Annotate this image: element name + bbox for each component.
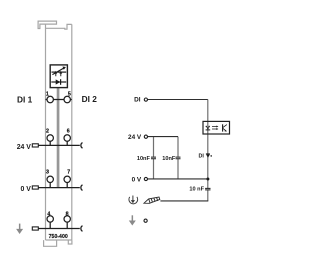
svg-text:5: 5 xyxy=(68,91,71,97)
svg-text:4: 4 xyxy=(47,212,50,218)
svg-text:8: 8 xyxy=(66,212,69,218)
svg-text:0 V: 0 V xyxy=(21,186,32,193)
svg-text:DI: DI xyxy=(134,97,141,104)
svg-text:6: 6 xyxy=(67,128,70,134)
svg-text:DI 2: DI 2 xyxy=(82,94,98,104)
svg-text:24 V: 24 V xyxy=(17,144,32,151)
svg-text:7: 7 xyxy=(67,170,70,176)
svg-text:2: 2 xyxy=(46,128,49,134)
svg-text:0 V: 0 V xyxy=(132,176,142,183)
svg-text:10nF: 10nF xyxy=(137,156,151,162)
svg-text:DI 1: DI 1 xyxy=(17,95,33,105)
svg-text:24 V: 24 V xyxy=(128,134,142,141)
svg-text:3: 3 xyxy=(46,170,49,176)
svg-text:1: 1 xyxy=(46,91,49,97)
svg-text:750-400: 750-400 xyxy=(49,234,68,240)
svg-text:10nF: 10nF xyxy=(162,156,176,162)
svg-text:10 nF: 10 nF xyxy=(189,187,204,193)
svg-text:DI: DI xyxy=(198,153,204,159)
